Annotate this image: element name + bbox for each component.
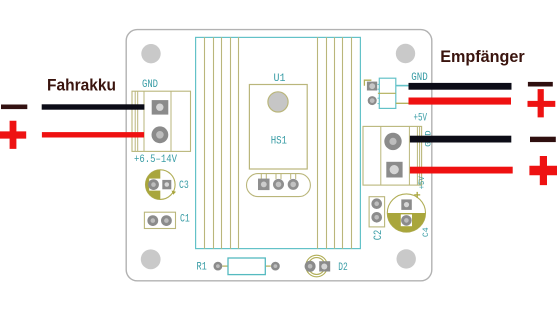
- U1 pad 3: [288, 179, 299, 190]
- output minus symbol: [530, 137, 556, 142]
- J2 mid line: [378, 92, 396, 94]
- mounting hole top-left: [141, 44, 160, 63]
- C1 pad 2: [161, 215, 172, 226]
- R1 pad 1: [214, 262, 223, 271]
- battery input connector outline: [132, 91, 191, 151]
- receiver wire plus top (red): [409, 98, 512, 105]
- svg-text:D2: D2: [338, 262, 348, 274]
- battery wire minus (black): [42, 104, 145, 109]
- svg-text:Empfänger: Empfänger: [440, 47, 525, 66]
- module courtyard rectangle: [196, 37, 361, 248]
- output pad +5V (square): [386, 162, 402, 178]
- battery connector inner lines: [135, 91, 171, 151]
- output connector inner lines: [381, 126, 420, 185]
- D2 pad 1 (round): [305, 261, 316, 272]
- U1 pad 1 (square): [258, 179, 270, 191]
- heatsink fin lines right: [318, 37, 352, 249]
- output connector outline: [363, 126, 422, 185]
- R1 pad 2: [271, 262, 280, 271]
- battery wire plus (red): [42, 132, 144, 137]
- battery minus symbol: [1, 105, 27, 110]
- C1 pad 1: [147, 215, 158, 226]
- receiver wire minus top (black): [409, 83, 512, 90]
- J2 pin line bottom (olive): [396, 102, 409, 104]
- svg-text:Fahrakku: Fahrakku: [47, 76, 116, 95]
- capacitor C2 outline: [369, 197, 385, 227]
- capacitor C1 outline: [144, 212, 175, 228]
- J2 body (teal): [379, 78, 396, 108]
- mounting hole bottom-right: [397, 249, 416, 268]
- output pad GND (round): [384, 133, 401, 150]
- resistor R1 body: [228, 258, 265, 275]
- svg-text:GND: GND: [142, 79, 158, 91]
- mounting hole top-right: [396, 44, 415, 63]
- svg-text:C2: C2: [373, 230, 385, 241]
- C3 pad 2 (square): [162, 180, 171, 189]
- U1 pad 2: [273, 179, 284, 190]
- diode D2 outline rings: [306, 255, 328, 277]
- capacitor C4 body: [387, 194, 425, 232]
- heatsink fin lines left: [205, 37, 239, 249]
- output plus symbol: [529, 156, 557, 185]
- mounting hole bottom-left: [141, 249, 161, 269]
- receiver minus symbol top: [528, 82, 553, 87]
- svg-text:C1: C1: [180, 213, 190, 225]
- svg-text:+5V: +5V: [418, 176, 427, 189]
- J2 pad 1 (square): [367, 82, 377, 91]
- svg-text:+5V: +5V: [414, 113, 428, 125]
- C3 pad 1 (round): [148, 179, 159, 190]
- svg-text:HS1: HS1: [271, 135, 288, 147]
- PCB board outline: [126, 30, 432, 281]
- battery connector pad +V (round): [152, 126, 169, 143]
- J2 pad stubs: [378, 84, 380, 103]
- battery plus symbol: [0, 121, 26, 149]
- J2 pad 2 (round): [368, 96, 377, 105]
- svg-text:U1: U1: [274, 73, 286, 85]
- regulator U1 body outline: [249, 85, 307, 170]
- receiver servo connector J2 pin1 marker: [364, 80, 371, 86]
- D2 pad 2 (square): [319, 261, 330, 271]
- C2 pad 2: [371, 212, 382, 223]
- svg-text:C3: C3: [179, 180, 189, 192]
- svg-text:C4: C4: [421, 227, 431, 237]
- svg-text:R1: R1: [197, 262, 208, 274]
- C2 pad 1: [371, 198, 382, 209]
- C4 plus mark: [414, 192, 420, 198]
- svg-text:+6.5–14V: +6.5–14V: [134, 154, 177, 166]
- receiver plus symbol top: [528, 89, 556, 117]
- svg-text:GND: GND: [411, 72, 428, 84]
- output wire minus (black): [410, 136, 511, 143]
- U1 leg ticks: [261, 174, 295, 179]
- HS1 pin stadium outline: [247, 174, 311, 197]
- U1 mounting hole circle: [268, 92, 288, 112]
- battery connector pad GND (square): [152, 100, 169, 115]
- C4 pad 1 (square): [401, 199, 412, 210]
- J2 pin line top (teal): [396, 85, 409, 87]
- resistor R1 lead stubs: [222, 265, 228, 267]
- capacitor C3 body: [146, 170, 177, 200]
- output wire plus (red): [410, 167, 513, 174]
- C4 pad 2 (round): [401, 215, 412, 226]
